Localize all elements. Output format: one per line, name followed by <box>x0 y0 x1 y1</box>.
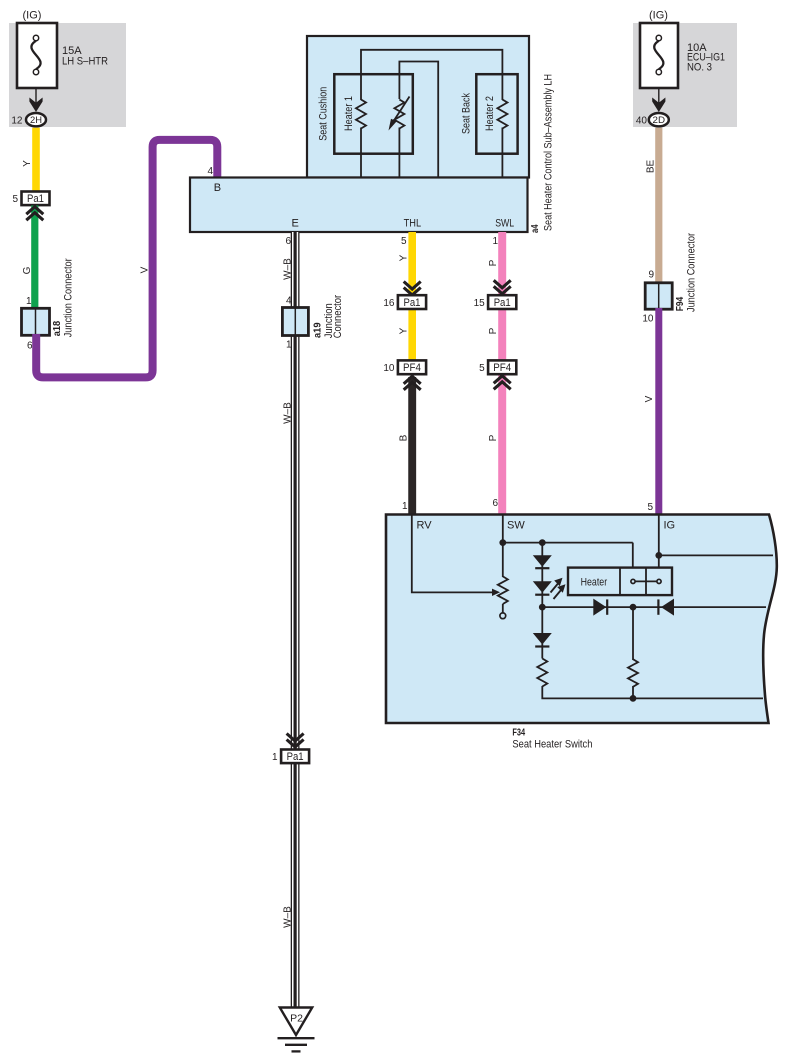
wire R2 to bottom rail <box>632 686 634 698</box>
wire SW down <box>502 515 504 577</box>
rheostat bottom terminal <box>502 604 504 613</box>
svg-text:Pa1: Pa1 <box>27 193 44 205</box>
svg-text:Junction Connector: Junction Connector <box>63 258 75 337</box>
svg-text:Heater 1: Heater 1 <box>343 96 355 131</box>
wire IG branch right <box>659 554 773 556</box>
rheostat resistor <box>498 576 508 604</box>
wire W-B (E to ground) <box>291 232 300 1009</box>
svg-text:6: 6 <box>27 341 33 352</box>
diode D4 (to heater, pointing right) <box>593 599 606 616</box>
svg-text:P: P <box>488 327 499 334</box>
node LED branch junction <box>539 539 546 546</box>
a4 lower box <box>190 178 528 233</box>
wire G (green) <box>31 206 38 311</box>
svg-text:Pa1: Pa1 <box>287 751 304 763</box>
resistor heater 2 <box>497 100 507 129</box>
wire fuse to arrow <box>658 88 660 103</box>
svg-text:5: 5 <box>12 194 18 205</box>
svg-text:IG: IG <box>664 520 676 532</box>
node LED to diode line <box>539 604 546 611</box>
svg-text:15: 15 <box>474 298 486 309</box>
svg-text:Connector: Connector <box>332 295 344 339</box>
wire down to heater box <box>632 543 634 568</box>
svg-text:P: P <box>488 434 499 441</box>
ground P2 triangle <box>280 1008 312 1036</box>
wire diode rail <box>542 606 766 608</box>
wire Y (THL upper) <box>408 232 416 362</box>
svg-text:Junction Connector: Junction Connector <box>686 233 698 312</box>
svg-text:a19: a19 <box>313 322 324 338</box>
switch contact left <box>631 579 635 583</box>
svg-text:F94: F94 <box>675 296 686 311</box>
svg-text:RV: RV <box>417 520 433 532</box>
wire BE (beige) <box>655 128 662 284</box>
svg-text:Seat Back: Seat Back <box>460 93 472 134</box>
resistor heater 1 <box>356 100 366 129</box>
svg-text:BE: BE <box>646 160 657 174</box>
seat cushion inner box <box>334 74 413 154</box>
diode D5 (pointing left) <box>661 599 674 616</box>
svg-text:6: 6 <box>285 236 291 247</box>
seat back inner box <box>476 74 517 154</box>
svg-text:B: B <box>398 434 409 441</box>
diode D3 <box>533 633 552 645</box>
svg-text:E: E <box>292 218 299 230</box>
wire heater2 bottom <box>501 128 503 178</box>
wire R1 to bottom rail <box>542 686 763 698</box>
wire fuse to arrow <box>35 88 37 103</box>
svg-text:1: 1 <box>492 236 498 247</box>
connector PF4 (pin 10) <box>398 360 426 374</box>
svg-text:(IG): (IG) <box>649 10 668 22</box>
switch contact right <box>657 579 661 583</box>
svg-text:B: B <box>214 182 221 194</box>
chevron splice up (below PF4) <box>494 376 511 384</box>
svg-text:Heater: Heater <box>581 577 608 589</box>
node IG junction <box>655 552 662 559</box>
LED emission arrows <box>551 584 559 593</box>
wire variable resistor top to THL <box>399 62 438 178</box>
connector Pa1 (pin 15) <box>488 295 516 309</box>
fuse element curve <box>654 41 663 69</box>
wire B (black to switch RV) <box>408 377 416 515</box>
fuse block background (left) <box>9 23 126 127</box>
node diode rail junction <box>630 604 637 611</box>
svg-text:5: 5 <box>479 363 485 374</box>
svg-text:a4: a4 <box>530 224 541 233</box>
arrowhead into connector 2H <box>29 98 42 113</box>
wire heater1 top to heater2 top <box>361 50 502 100</box>
svg-text:W–B: W–B <box>282 402 293 424</box>
fuse element curve <box>31 41 40 69</box>
wire heater1 bottom <box>360 128 362 178</box>
wire V (purple to switch IG) <box>655 308 662 515</box>
junction connector a19 <box>282 308 308 336</box>
chevron splice up (below PF4) <box>404 376 421 384</box>
connector Pa1 (pin 16) <box>398 295 426 309</box>
svg-text:Pa1: Pa1 <box>494 297 511 309</box>
chevron splice down (above Pa1) <box>404 282 421 290</box>
thermistor arrow <box>393 97 410 123</box>
connector PF4 (pin 5) <box>488 360 516 374</box>
svg-text:NO. 3: NO. 3 <box>687 61 712 73</box>
svg-text:1: 1 <box>272 752 278 763</box>
svg-text:10: 10 <box>383 363 395 374</box>
svg-text:a18: a18 <box>52 320 63 336</box>
svg-text:9: 9 <box>648 270 654 281</box>
svg-text:W–B: W–B <box>282 906 293 928</box>
svg-text:F34: F34 <box>512 728 525 739</box>
svg-text:2D: 2D <box>653 115 666 126</box>
switch contact line <box>633 580 659 582</box>
node bottom rail junction <box>630 695 637 702</box>
ground hatch <box>278 1037 315 1039</box>
node SW junction <box>499 539 506 546</box>
svg-text:10: 10 <box>642 314 654 325</box>
connector Pa1 (pin 5) <box>22 192 50 206</box>
svg-text:V: V <box>644 395 655 402</box>
svg-text:P: P <box>488 259 499 266</box>
wire IG down <box>658 515 660 568</box>
rheostat arrowhead <box>492 589 500 596</box>
chevron splice up (below Pa1) <box>26 207 43 215</box>
svg-text:SWL: SWL <box>495 218 514 230</box>
connector oval 2H <box>26 113 46 126</box>
LED D2 <box>533 581 552 593</box>
svg-text:1: 1 <box>26 296 32 307</box>
svg-text:16: 16 <box>383 298 395 309</box>
svg-text:Y: Y <box>398 254 409 261</box>
svg-text:P2: P2 <box>290 1013 303 1025</box>
a4 upper box <box>307 36 529 178</box>
diode D1 (indicator) <box>533 555 552 567</box>
svg-text:LH S–HTR: LH S–HTR <box>62 56 108 68</box>
junction connector F94 <box>645 283 672 309</box>
svg-text:12: 12 <box>11 116 23 127</box>
wire variable resistor bottom <box>398 128 400 178</box>
svg-text:5: 5 <box>401 236 407 247</box>
svg-text:Seat Cushion: Seat Cushion <box>317 87 329 141</box>
svg-text:SW: SW <box>507 520 525 532</box>
svg-text:Seat Heater Switch: Seat Heater Switch <box>512 739 592 751</box>
resistor R2 (right) <box>628 659 638 687</box>
heater switch box <box>568 568 672 596</box>
svg-text:W–B: W–B <box>282 258 293 280</box>
svg-text:2H: 2H <box>30 115 42 126</box>
svg-text:PF4: PF4 <box>403 362 421 374</box>
svg-text:1: 1 <box>286 340 292 351</box>
fuse block background (right) <box>633 23 737 127</box>
wire LED chain vertical <box>541 543 543 659</box>
svg-text:Heater 2: Heater 2 <box>484 96 496 131</box>
arrowhead into connector 2D <box>652 98 665 113</box>
svg-text:4: 4 <box>286 296 292 307</box>
svg-text:Y: Y <box>22 160 33 167</box>
fuse 15A LH S-HTR body <box>17 23 57 88</box>
chevron splice down (above Pa1 ground) <box>287 734 304 742</box>
svg-text:PF4: PF4 <box>493 362 511 374</box>
wire V (purple) a18 to control assembly pin 4 <box>36 140 217 378</box>
chevron splice down (above Pa1) <box>494 280 511 288</box>
wire diode rail to R2 <box>632 607 634 660</box>
fuse 10A ECU-IG1 NO.3 body <box>640 23 678 88</box>
svg-text:Y: Y <box>398 327 409 334</box>
junction connector a18 <box>22 308 50 335</box>
svg-text:1: 1 <box>402 501 408 512</box>
svg-text:(IG): (IG) <box>23 10 42 22</box>
wire SW horizontal to heater switch <box>503 542 633 544</box>
connector oval 2D <box>649 113 669 126</box>
svg-text:Seat Heater Control Sub–Assemb: Seat Heater Control Sub–Assembly LH <box>543 74 555 231</box>
svg-text:Pa1: Pa1 <box>404 297 421 309</box>
switch F34 body <box>386 515 777 724</box>
svg-text:5: 5 <box>647 502 653 513</box>
svg-text:4: 4 <box>207 166 213 177</box>
wire Y (yellow) <box>32 128 40 193</box>
connector Pa1 (pin 1, ground leg) <box>281 750 309 764</box>
svg-text:G: G <box>22 266 33 274</box>
resistor R1 (LED chain) <box>537 659 547 687</box>
wire P (pink SWL) <box>498 232 506 515</box>
svg-text:V: V <box>140 266 151 273</box>
wire RV to rheostat arrow <box>412 515 493 592</box>
svg-text:40: 40 <box>636 116 648 127</box>
resistor variable (thermistor) <box>394 100 404 129</box>
svg-text:THL: THL <box>404 218 422 230</box>
svg-text:6: 6 <box>492 498 498 509</box>
